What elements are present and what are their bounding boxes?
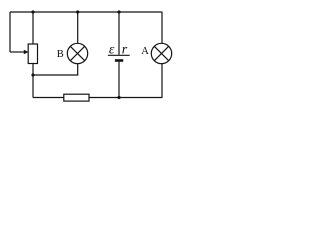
node dot at battery bottom (117, 96, 120, 99)
wire branch node to lamp B (33, 64, 78, 75)
node dot at battery top (117, 10, 120, 13)
rheostat wiper arrowhead (24, 50, 29, 55)
svg-text:ε: ε (109, 43, 115, 58)
wire bottom left segment (33, 97, 64, 99)
lamp B body (67, 43, 87, 63)
wire left side (9, 12, 11, 52)
battery top lead wire (118, 12, 120, 55)
rheostat R1 bottom lead wire (32, 64, 34, 98)
battery short plate (negative) (115, 59, 123, 62)
wire bottom right segment (89, 97, 162, 99)
node dot at branch junction (31, 73, 34, 76)
svg-text:r: r (122, 43, 128, 58)
lamp A top lead wire (161, 12, 163, 43)
svg-text:B: B (57, 49, 64, 60)
lamp A bottom lead wire (161, 64, 163, 98)
lamp A body (151, 43, 171, 63)
rheostat R1 top lead wire (32, 12, 34, 44)
svg-text:A: A (141, 46, 149, 57)
lamp B top lead wire (77, 12, 79, 43)
lamp A filament cross (154, 46, 168, 60)
lamp B filament cross (70, 46, 84, 60)
wire wiper lead (10, 51, 25, 53)
resistor R2 body (64, 94, 89, 101)
node dot at rheostat top (31, 10, 34, 13)
node dot at lamp B top (76, 10, 79, 13)
battery long plate (positive) (108, 54, 130, 56)
rheostat R1 body (28, 44, 37, 64)
wire top bus (10, 11, 162, 13)
battery bottom lead wire (118, 62, 120, 98)
